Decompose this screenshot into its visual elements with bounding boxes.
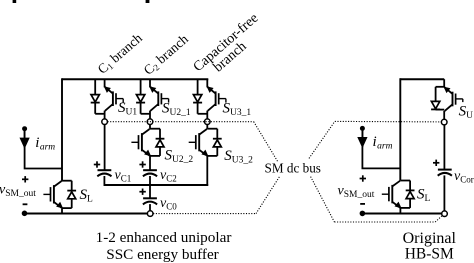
- wire branch3 node to cell: [206, 124, 208, 129]
- diode D_U3_2: [213, 129, 222, 156]
- wire mid rail to C0: [149, 185, 151, 198]
- plus sign v_SM_out left: [22, 176, 28, 182]
- plus sign C_ori: [433, 160, 439, 166]
- wire bottom rail right: [362, 213, 444, 215]
- wire cell bottom S_L right: [400, 207, 410, 209]
- wire cap to bottom node: [443, 175, 445, 211]
- wire C0 to bottom rail: [149, 204, 151, 211]
- dotted bus lower-left horizontal: [153, 213, 256, 215]
- capacitor C_ori: [438, 170, 452, 176]
- label v_SM_out right: [338, 183, 375, 200]
- dotted bus lower-left diagonal: [256, 177, 280, 214]
- label v_C2: [160, 168, 177, 184]
- diode D_L right: [406, 181, 415, 208]
- label Capacitor-free branch (rotated, 2 lines): [191, 11, 270, 85]
- wire mid rail: [104, 184, 209, 186]
- capacitor C0: [143, 198, 157, 204]
- label v_Cori: [454, 169, 474, 185]
- node C0 bottom (open): [147, 211, 153, 217]
- plus sign C1: [94, 161, 100, 167]
- wire cell bottom S_U: [436, 109, 445, 111]
- svg-text:SSC energy buffer: SSC energy buffer: [106, 246, 219, 263]
- diode D_U right: [431, 87, 440, 110]
- transistor S_U3_1 (IGBT): [207, 79, 226, 119]
- caption line2 right: [405, 246, 454, 263]
- dotted bus upper-left diagonal: [254, 122, 278, 162]
- capacitor C1: [97, 170, 111, 176]
- diode D_U1: [91, 80, 100, 114]
- wire cell top S_L right: [400, 180, 410, 182]
- label S_L left: [80, 187, 94, 205]
- wire cell top S_U2_2: [150, 128, 160, 130]
- diode D_U2_1: [136, 80, 145, 114]
- transistor S_U3_2 (IGBT): [189, 129, 208, 156]
- dotted wire SM dc bus upper-left: [108, 121, 254, 123]
- label S_U3_1: [223, 101, 252, 119]
- wire cell top S_U3_2: [207, 128, 217, 130]
- transistor S_L left (IGBT): [43, 181, 62, 208]
- label S_L right: [417, 186, 431, 204]
- terminal dot bottom-left: [22, 211, 28, 217]
- dotted bus lower-right horizontal: [334, 221, 435, 223]
- wire cell top S_L left: [62, 180, 72, 182]
- caption line1 right: [403, 230, 457, 247]
- plus sign C2: [139, 161, 145, 167]
- wire cell bottom S_U1: [95, 113, 104, 115]
- node branch1 mid (open): [102, 119, 108, 125]
- node S_U emitter (open): [441, 119, 447, 125]
- minus sign v_SM_out left: [23, 203, 28, 205]
- svg-text:HB-SM: HB-SM: [405, 246, 454, 263]
- cropped text remnant top-middle: [146, 0, 150, 3]
- wire S_U top corner: [443, 79, 445, 87]
- node branch3 mid (open): [205, 119, 211, 125]
- label S_U2_1: [162, 100, 191, 118]
- diode D_U3_1: [193, 80, 202, 114]
- wire center rail right: [399, 78, 401, 180]
- wire i_arm branch left: [25, 131, 63, 169]
- label C2 branch (rotated): [141, 31, 192, 78]
- wire S_U2_2 to C2: [149, 156, 151, 170]
- cropped text remnant top-left: [13, 0, 17, 3]
- plus sign v_SM_out right: [360, 175, 366, 181]
- transistor S_U1 (IGBT): [105, 79, 124, 119]
- wire top rail: [62, 78, 208, 80]
- label S_U1: [118, 100, 137, 118]
- terminal dot bottom right-circuit: [360, 211, 366, 217]
- wire cell bottom S_U2_1: [141, 113, 150, 115]
- wire cell bottom S_L left: [62, 207, 72, 209]
- node branch2 mid (open): [147, 119, 153, 125]
- minus sign v_SM_out right: [360, 203, 365, 205]
- diode D_L left: [67, 181, 76, 208]
- label C1 branch (rotated): [95, 30, 146, 77]
- capacitor C2: [143, 170, 157, 176]
- wire right rail node to cap: [443, 125, 445, 170]
- transistor S_U2_1 (IGBT): [150, 79, 169, 119]
- label i_arm right: [373, 134, 393, 151]
- label v_C0: [160, 196, 177, 212]
- svg-text:Original: Original: [403, 230, 457, 247]
- wire branch2 node to cell: [149, 124, 151, 129]
- wire cell bottom S_U3_2: [207, 155, 217, 157]
- wire cell bottom S_U3_1: [198, 113, 208, 115]
- label i_arm left: [35, 135, 55, 152]
- wire branch3 to mid rail: [206, 156, 208, 186]
- dotted bus upper-right horizontal: [335, 120, 441, 123]
- dotted bus upper-right diagonal: [309, 121, 335, 158]
- caption line2 left: [106, 246, 219, 263]
- label S_U3_2: [224, 148, 253, 166]
- caption line1 left: [96, 229, 232, 246]
- node bottom-right (open): [442, 211, 448, 217]
- current arrow i_arm right: [358, 126, 366, 147]
- wire branch1 node to C1: [104, 124, 106, 170]
- wire top rail right: [400, 78, 444, 80]
- wire C2 to mid rail: [149, 176, 151, 186]
- svg-text:SM dc bus: SM dc bus: [265, 161, 321, 176]
- dotted bus rise to right node: [435, 215, 443, 222]
- transistor S_L right (IGBT): [382, 181, 401, 208]
- label v_SM_out left: [0, 183, 36, 200]
- label S_U right: [459, 103, 474, 121]
- wire bottom rail left: [24, 213, 148, 215]
- wire S_L left emitter to rail: [61, 208, 63, 213]
- wire S_L right emitter to rail: [399, 208, 401, 214]
- transistor S_U right (IGBT): [444, 87, 463, 119]
- wire left rail: [61, 78, 63, 181]
- transistor S_U2_2 (IGBT): [131, 129, 150, 156]
- current arrow i_arm left: [20, 126, 28, 147]
- label v_C1: [115, 168, 132, 184]
- plus sign C0: [139, 189, 145, 195]
- diode D_U2_2: [156, 129, 165, 156]
- label S_U2_2: [165, 148, 194, 166]
- dotted bus lower-right diagonal: [311, 177, 335, 222]
- wire cell bottom S_U2_2: [150, 155, 160, 157]
- wire cell top S_U: [436, 86, 445, 88]
- wire i_arm branch right: [362, 131, 400, 169]
- svg-text:1-2 enhanced unipolar: 1-2 enhanced unipolar: [96, 229, 232, 246]
- wire C1 to mid rail: [103, 176, 105, 186]
- label SM dc bus: [265, 161, 321, 176]
